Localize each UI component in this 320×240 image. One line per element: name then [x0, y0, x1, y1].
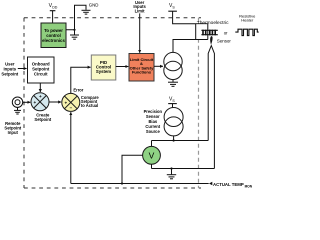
svg-text:Input: Input — [8, 130, 19, 135]
svg-text:Sensor: Sensor — [217, 39, 231, 44]
svg-text:Source: Source — [146, 129, 161, 134]
create setpoint summing node — [31, 93, 49, 111]
svg-text:Setpoint: Setpoint — [34, 117, 51, 122]
sense line bottom — [151, 164, 153, 168]
dashed chip boundary left — [23, 18, 25, 188]
svg-text:MON: MON — [245, 184, 253, 188]
PID control system box — [91, 55, 116, 80]
svg-text:Thermoelectric: Thermoelectric — [197, 20, 229, 26]
sensor probe — [208, 46, 214, 169]
svg-text:Heater: Heater — [241, 18, 254, 23]
ground on bottom sense line — [167, 169, 176, 179]
Precision Sensor Bias Current Source label — [144, 109, 163, 134]
User Inputs Limit label — [133, 0, 146, 13]
svg-text:+: + — [39, 94, 42, 99]
Compare Setpoint to Actual label — [81, 95, 99, 108]
dashed chip boundary top — [24, 17, 201, 19]
wire actual-temp into compare bottom — [70, 112, 72, 183]
ground under GND label — [82, 10, 91, 14]
svg-text:ACTUAL TEMP: ACTUAL TEMP — [213, 182, 244, 187]
TEC module outline — [195, 24, 208, 39]
svg-text:System: System — [96, 69, 111, 74]
svg-text:Setpoint: Setpoint — [1, 71, 18, 76]
svg-text:Error: Error — [73, 88, 83, 93]
Remote Setpoint Input label — [4, 121, 21, 135]
svg-text:to Actual: to Actual — [81, 103, 98, 108]
svg-text:or: or — [224, 31, 228, 36]
User Inputs Setpoint label — [1, 61, 18, 76]
wire user limit into limit box — [139, 13, 141, 52]
svg-text:Circuit: Circuit — [34, 72, 48, 77]
VS bar — [168, 10, 177, 12]
wire create to compare — [49, 101, 61, 103]
precision bias current source — [164, 108, 183, 136]
VDD label — [49, 3, 58, 9]
svg-text:+: + — [65, 100, 68, 105]
resistive heater symbol — [235, 29, 258, 35]
actual temp arrow — [209, 182, 212, 185]
power control box — [41, 23, 66, 48]
svg-text:+: + — [34, 100, 37, 105]
dashed chip boundary bottom — [24, 187, 201, 189]
limit circuit box — [129, 54, 154, 82]
wire VDD to power box — [52, 11, 54, 23]
thermoelectric cooler symbol — [201, 30, 217, 36]
ground below TEC current source — [168, 80, 178, 87]
wire limit to TEC current source — [154, 65, 163, 67]
svg-text:Limit: Limit — [135, 8, 146, 13]
ground below power box junction — [70, 30, 79, 39]
onboard setpoint circuit box — [28, 57, 55, 83]
ground below connector — [14, 107, 21, 114]
Create Setpoint label — [34, 113, 51, 123]
svg-text:Functions: Functions — [132, 70, 152, 75]
compare setpoint summing node — [62, 93, 80, 111]
wire power box to ground net — [66, 5, 86, 30]
remote setpoint connector — [12, 97, 22, 107]
wire compare to PID — [71, 67, 91, 93]
junction dot — [73, 29, 75, 31]
actual temp line — [71, 183, 209, 185]
VS supply (top) — [169, 3, 175, 9]
VDD supply bar — [50, 10, 56, 12]
svg-text:−: − — [70, 105, 73, 110]
wire bias source to sense line — [173, 136, 175, 141]
TEC current source — [164, 52, 182, 79]
wire CS top to TEC bottom rail — [173, 40, 208, 53]
sensor pointer arrow — [210, 36, 212, 45]
dashed boundary right (grey) — [198, 18, 200, 188]
voltmeter left wire — [122, 155, 143, 183]
voltmeter — [143, 146, 161, 164]
wire user setpoint to onboard box — [18, 68, 27, 70]
sense line top — [151, 141, 153, 147]
svg-text:electronics: electronics — [42, 38, 65, 43]
wire onboard box to create-setpoint — [39, 83, 41, 92]
svg-text:V: V — [149, 150, 155, 160]
wire PID to limit — [116, 66, 129, 68]
VS supply (middle) — [169, 96, 175, 102]
svg-text:DD: DD — [52, 6, 58, 10]
wire connector to create-setpoint — [23, 101, 31, 103]
wire VS to TEC top rail — [173, 11, 208, 24]
svg-text:GND: GND — [89, 2, 99, 7]
Resistive Heater label — [239, 14, 256, 23]
